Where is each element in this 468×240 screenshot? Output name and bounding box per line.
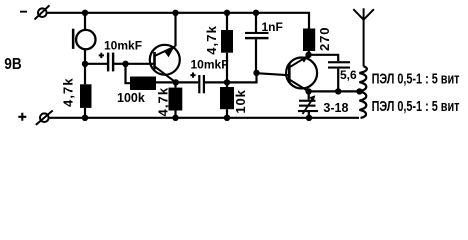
wire R1 bottom lead bbox=[84, 108, 86, 118]
variable capacitor C5 3-18 bbox=[298, 95, 318, 114]
wire R5 top lead bbox=[226, 82, 228, 87]
wire bottom rail bbox=[48, 117, 359, 119]
node VT2 collector bbox=[305, 52, 311, 58]
node A bbox=[224, 79, 230, 85]
svg-text:10mkF: 10mkF bbox=[191, 57, 229, 71]
wire R1 top lead bbox=[84, 64, 86, 85]
capacitor C1 10mkF bbox=[99, 53, 115, 72]
resistor R2 100k bbox=[130, 77, 156, 91]
wire C4 bottom lead bbox=[337, 69, 339, 92]
svg-text:ПЭЛ 0,5-1 : 5 вит: ПЭЛ 0,5-1 : 5 вит bbox=[372, 70, 460, 87]
node bottom rail R1 bbox=[82, 115, 88, 121]
node B mic C1 bbox=[82, 61, 88, 67]
capacitor C2 10mkF bbox=[190, 73, 205, 94]
resistor R1 4,7k bbox=[80, 84, 92, 108]
wire node B to C1 bbox=[85, 63, 107, 65]
wire VT1 collector node to C2 bbox=[176, 81, 198, 83]
wire VT2 emitter to coil tap bbox=[309, 90, 360, 92]
label minus bbox=[20, 11, 27, 13]
resistor R4 4,7k bbox=[221, 30, 233, 53]
svg-text:10k: 10k bbox=[233, 89, 248, 113]
wire top rail bbox=[47, 13, 309, 29]
wire R2 to VT1 collector node bbox=[156, 81, 176, 83]
wire C3 bottom lead bbox=[255, 39, 257, 73]
node bottom rail R3 bbox=[172, 115, 178, 121]
battery terminal minus bbox=[35, 5, 50, 19]
svg-text:4,7k: 4,7k bbox=[61, 77, 76, 107]
node C4 bottom bbox=[335, 88, 341, 94]
wire R3 top lead bbox=[174, 82, 176, 87]
svg-text:5,6: 5,6 bbox=[340, 68, 357, 82]
node top rail mic bbox=[82, 10, 88, 16]
inductor L1 coil bbox=[359, 66, 367, 118]
wire 1nF node to VT2 base bbox=[257, 73, 289, 75]
node bottom rail C5 bbox=[306, 115, 312, 121]
resistor R5 10k bbox=[220, 87, 234, 109]
antenna W1 bbox=[353, 8, 374, 66]
svg-text:9В: 9В bbox=[4, 56, 22, 73]
wire VT2 collector to C4 bbox=[309, 55, 338, 61]
svg-text:10mkF: 10mkF bbox=[104, 39, 142, 53]
node VT2 emitter bbox=[305, 88, 311, 94]
wire R5 bottom lead bbox=[226, 109, 228, 118]
wire R4 top lead bbox=[226, 13, 228, 30]
node C C1 base bbox=[122, 61, 128, 67]
svg-text:4,7k: 4,7k bbox=[156, 87, 171, 117]
svg-text:ПЭЛ 0,5-1 : 5 вит: ПЭЛ 0,5-1 : 5 вит bbox=[372, 97, 460, 114]
node bottom rail R5 bbox=[224, 115, 230, 121]
node top rail C3 bbox=[253, 10, 259, 16]
battery terminal plus bbox=[36, 111, 53, 125]
microphone BM1 bbox=[72, 29, 96, 50]
wire mic bottom lead bbox=[84, 49, 86, 64]
svg-text:100k: 100k bbox=[117, 91, 145, 105]
node VT1 collector bbox=[173, 79, 179, 85]
resistor R6 270 bbox=[303, 29, 315, 52]
node C3 base bbox=[253, 70, 259, 76]
svg-text:270: 270 bbox=[317, 27, 332, 51]
wire C2 to node A bbox=[205, 81, 227, 83]
svg-text:4,7k: 4,7k bbox=[204, 25, 219, 55]
wire C5 bottom lead bbox=[308, 111, 310, 118]
wire R6 bottom lead to VT2 collector node bbox=[308, 51, 310, 55]
transistor VT1 bbox=[150, 13, 180, 83]
wire C5 top lead bbox=[308, 91, 310, 99]
wire R4 bottom lead bbox=[226, 53, 228, 83]
wire node C to VT1 base bbox=[126, 63, 154, 65]
wire node C down to R2 bbox=[126, 64, 131, 83]
resistor R3 4,7k bbox=[169, 88, 183, 111]
node top rail R4 bbox=[224, 10, 230, 16]
label plus bbox=[18, 113, 26, 121]
wire R3 bottom lead bbox=[174, 111, 176, 118]
svg-text:3-18: 3-18 bbox=[323, 101, 348, 115]
wire C1 to node C bbox=[114, 63, 126, 65]
transistor VT2 bbox=[286, 56, 317, 92]
capacitor C3 1nF bbox=[245, 32, 269, 39]
wire node A to 1nF node bbox=[227, 73, 257, 83]
wire C3 top lead bbox=[255, 13, 257, 32]
node coil tap bbox=[356, 88, 362, 94]
svg-text:1nF: 1nF bbox=[262, 20, 283, 34]
node top rail VT1 bbox=[172, 10, 178, 16]
wire mic top lead bbox=[84, 13, 86, 31]
capacitor C4 5,6 bbox=[328, 61, 350, 68]
